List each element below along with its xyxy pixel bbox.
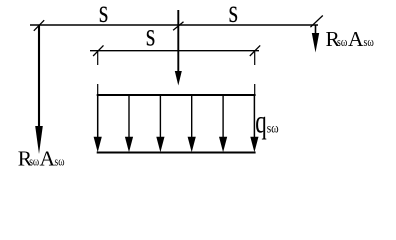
distributed load bottom chord (beam line) [97, 152, 256, 154]
svg-text:A: A [348, 27, 364, 51]
distributed load arrow 6 (right edge) [250, 95, 258, 152]
distributed load arrow 4 [188, 95, 196, 152]
left reaction arrow shaft [38, 25, 40, 140]
distributed load arrow 5 [219, 95, 227, 152]
svg-text:A: A [40, 147, 56, 171]
tick right end of top dimension line [310, 16, 322, 28]
distributed load arrow 2 [125, 95, 133, 152]
right extension line (dashed) [254, 52, 256, 66]
tick left end of second dimension line [93, 45, 103, 56]
top dimension line [30, 24, 318, 26]
distributed load arrow 3 [156, 95, 164, 152]
central load arrow head [175, 71, 182, 86]
svg-text:s: s [99, 0, 109, 30]
tick right end of second dimension line [250, 45, 260, 56]
svg-text:s: s [146, 17, 156, 53]
svg-text:s: s [229, 0, 239, 30]
svg-text:sω: sω [337, 34, 348, 49]
central load arrow shaft [177, 10, 179, 76]
svg-text:qsω: qsω [255, 105, 279, 141]
left reaction label R_so A_so [18, 147, 65, 171]
distributed load top chord [97, 94, 256, 96]
left reaction arrow head [35, 126, 43, 154]
right reaction arrow shaft [315, 25, 317, 40]
distributed load arrow 1 (left edge) [94, 95, 102, 152]
left extension line (dashed) [97, 52, 99, 66]
svg-text:sω: sω [55, 154, 65, 169]
second dimension line [90, 50, 259, 52]
svg-text:sω: sω [29, 154, 39, 169]
svg-text:sω: sω [364, 34, 375, 49]
right reaction label R_so A_so [326, 27, 375, 51]
right reaction arrow head [312, 33, 319, 53]
tick left end of top dimension line [34, 20, 44, 31]
tick centre of top dimension line [173, 22, 183, 31]
